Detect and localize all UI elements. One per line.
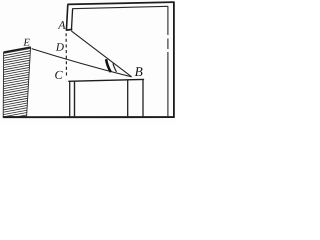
label C (55, 71, 63, 79)
window jamb inner vertical (72, 9, 73, 30)
table right pedestal right edge (142, 80, 144, 117)
ray E to B (32, 49, 132, 77)
right wall outer line (173, 2, 175, 118)
wall hatching (2, 48, 33, 119)
ceiling inner line (72, 6, 168, 8)
floor line (3, 116, 175, 118)
label B (135, 67, 143, 76)
hatched wall top edge (thick) (4, 47, 31, 52)
lens thin stroke (113, 63, 117, 72)
table top (68, 79, 144, 81)
label E (23, 39, 30, 46)
label A (58, 21, 66, 29)
table right pedestal left edge (127, 80, 129, 116)
label D (56, 43, 64, 50)
ray A to B (71, 31, 131, 77)
hatched wall section (left) (3, 47, 30, 116)
ceiling outer line (67, 2, 174, 4)
lens thick stroke (106, 59, 111, 72)
right wall inner line (167, 6, 169, 117)
window jamb bottom sill at A (66, 29, 73, 32)
table left leg line 2 (74, 81, 76, 116)
dashed line A-D-C (65, 33, 67, 77)
window jamb outer vertical (above A) (66, 4, 67, 30)
table left leg line 1 (69, 81, 71, 116)
